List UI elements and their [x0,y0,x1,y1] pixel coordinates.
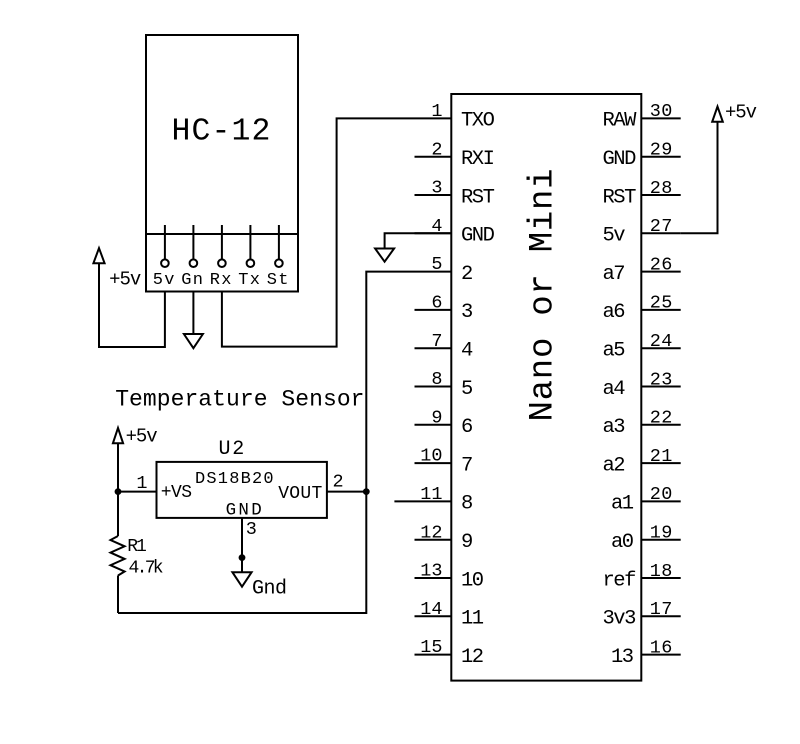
Nano right pin 22 (a3) [603,408,681,440]
svg-text:19: 19 [650,523,673,544]
svg-text:2: 2 [431,139,442,160]
svg-text:20: 20 [650,484,673,505]
svg-text:15: 15 [420,637,442,658]
wire HC-12 Rx pin to Nano TXO (pin 1) [222,118,415,346]
Nano left pin 9 (6) [415,407,473,439]
Nano right pin 28 (RST) [603,178,681,210]
svg-text:7: 7 [461,454,472,477]
power symbol +5v (HC-12 supply) [93,248,141,290]
svg-text:a6: a6 [603,301,625,324]
wire HC-12 Gn pin to ground [192,292,194,335]
svg-text:16: 16 [650,637,673,658]
wire +5v down to +VS junction and R1 top [117,443,119,536]
svg-text:RXI: RXI [461,148,494,171]
svg-text:R1: R1 [127,537,146,557]
HC-12 pin 5v [153,225,176,290]
svg-text:13: 13 [611,646,633,669]
power symbol +5v (Nano supply) [712,102,756,124]
Nano left pin 7 (4) [415,331,474,363]
node junction on sensor ground pin [239,554,246,561]
svg-text:23: 23 [650,369,673,390]
ground symbol Gnd (sensor) [232,572,286,600]
HC-12 module body [146,35,298,292]
svg-text:Gn: Gn [181,271,204,290]
svg-text:13: 13 [420,561,442,582]
svg-text:22: 22 [650,408,673,429]
svg-text:3v3: 3v3 [603,608,636,631]
svg-text:26: 26 [650,254,673,275]
svg-text:4.7k: 4.7k [129,558,163,578]
svg-text:a3: a3 [603,416,625,439]
svg-text:RST: RST [603,186,637,209]
Nano right pin 30 (RAW) [603,101,681,133]
Nano left pin 15 (12) [415,637,483,669]
svg-text:Temperature Sensor: Temperature Sensor [115,387,364,413]
svg-text:5v: 5v [603,225,626,248]
svg-text:28: 28 [650,178,673,199]
svg-text:4: 4 [461,340,473,363]
Nano left pin 1 (TXO) [415,101,495,133]
svg-text:11: 11 [461,608,484,631]
wire Nano GND (pin 4) to ground [385,233,452,248]
svg-text:25: 25 [650,293,673,314]
svg-text:5: 5 [431,254,442,275]
svg-text:5: 5 [461,378,472,401]
svg-text:U2: U2 [219,438,246,461]
svg-text:RST: RST [461,186,495,209]
svg-text:27: 27 [650,216,673,237]
ground symbol (Nano GND) [375,249,394,262]
U2 pin 2 wire (VOUT) [327,472,366,493]
svg-text:8: 8 [431,369,442,390]
svg-text:a0: a0 [611,531,634,554]
Nano left pin 13 (10) [415,561,484,593]
Nano right pin 16 (13) [611,637,681,669]
svg-text:+5v: +5v [725,102,757,124]
node junction +VS / +5v / R1 [115,488,122,495]
svg-text:+5v: +5v [126,425,158,447]
svg-text:Nano or Mini: Nano or Mini [524,168,562,422]
svg-text:5v: 5v [153,271,176,290]
HC-12 pin St [267,225,290,290]
svg-text:3: 3 [431,178,442,199]
svg-text:29: 29 [650,140,673,161]
Nano right pin 24 (a5) [603,331,681,363]
Nano left pin 4 (GND) [415,216,495,248]
svg-text:8: 8 [461,493,472,516]
svg-text:+5v: +5v [109,268,141,290]
Nano left pin 8 (5) [415,369,473,401]
Nano right pin 17 (3v3) [603,599,681,631]
svg-text:a4: a4 [603,378,626,401]
wire Nano pin 5 (D2) to sensor data net [118,272,415,613]
svg-text:VOUT: VOUT [278,484,322,504]
Nano left pin 11 (8) [394,484,472,516]
HC-12 pin Rx [210,225,233,290]
svg-text:3: 3 [461,301,472,324]
svg-text:+VS: +VS [161,483,192,503]
svg-text:DS18B20: DS18B20 [195,470,275,489]
ground symbol (HC-12) [184,334,203,348]
svg-text:GND: GND [226,501,264,521]
svg-text:RAW: RAW [603,110,638,133]
resistor R1 4.7k [111,536,163,578]
svg-text:HC-12: HC-12 [172,115,272,150]
Nano right pin 19 (a0) [611,523,681,555]
Nano right pin 26 (a7) [603,254,681,286]
Nano left pin 3 (RST) [415,178,495,210]
Nano right pin 21 (a2) [603,446,681,478]
svg-text:7: 7 [431,331,442,352]
svg-text:Gnd: Gnd [252,577,287,600]
U2 pin 1 wire (+VS) [118,473,157,494]
svg-text:2: 2 [461,263,472,286]
svg-text:21: 21 [650,446,673,467]
svg-text:30: 30 [650,101,673,122]
Nano right pin 23 (a4) [603,369,681,401]
temperature sensor U2 DS18B20 body [157,438,327,521]
Nano left pin 12 (9) [415,522,473,554]
Nano left pin 5 (2) [415,254,473,286]
svg-text:9: 9 [431,407,442,428]
svg-text:a1: a1 [611,493,634,516]
svg-text:a5: a5 [603,340,625,363]
Nano left pin 10 (7) [415,446,473,478]
svg-text:18: 18 [650,561,673,582]
svg-text:1: 1 [136,473,147,494]
Nano right pin 18 (ref) [603,561,681,593]
svg-text:6: 6 [461,416,472,439]
svg-text:TXO: TXO [461,110,495,133]
svg-text:St: St [267,271,290,290]
HC-12 pin Tx [238,225,261,290]
svg-text:9: 9 [461,531,472,554]
svg-text:14: 14 [420,599,442,620]
svg-text:17: 17 [650,599,673,620]
HC-12 pin Gn [181,225,204,290]
svg-text:a2: a2 [603,454,625,477]
svg-text:Rx: Rx [210,271,233,290]
svg-text:GND: GND [461,225,495,248]
Arduino Nano or Mini body [451,94,641,681]
Nano left pin 2 (RXI) [415,139,494,171]
Nano right pin 29 (GND) [603,140,681,172]
svg-text:ref: ref [603,569,636,592]
Nano left pin 6 (3) [415,293,473,325]
Nano right pin 27 (5v) [603,216,681,248]
U2 pin 3 wire (GND) [242,518,257,572]
svg-text:11: 11 [420,484,442,505]
svg-text:3: 3 [246,519,257,540]
svg-text:a7: a7 [603,263,625,286]
svg-text:6: 6 [431,293,442,314]
node junction VOUT / data net [363,488,370,495]
svg-text:1: 1 [431,101,442,122]
wire Nano 5v (pin 27) to +5v symbol [681,122,718,234]
svg-text:2: 2 [333,472,344,493]
svg-text:10: 10 [461,569,484,592]
svg-text:Tx: Tx [238,271,261,290]
Nano right pin 25 (a6) [603,293,681,325]
svg-text:12: 12 [461,646,483,669]
power symbol +5v (sensor supply) [113,425,157,447]
svg-text:12: 12 [420,522,442,543]
Nano right pin 20 (a1) [611,484,681,516]
wire HC-12 5v pin to +5v symbol [99,263,165,347]
Nano left pin 14 (11) [415,599,484,631]
wire R1 bottom to data net [117,576,119,614]
svg-text:GND: GND [603,148,637,171]
svg-text:10: 10 [420,446,442,467]
svg-text:24: 24 [650,331,673,352]
